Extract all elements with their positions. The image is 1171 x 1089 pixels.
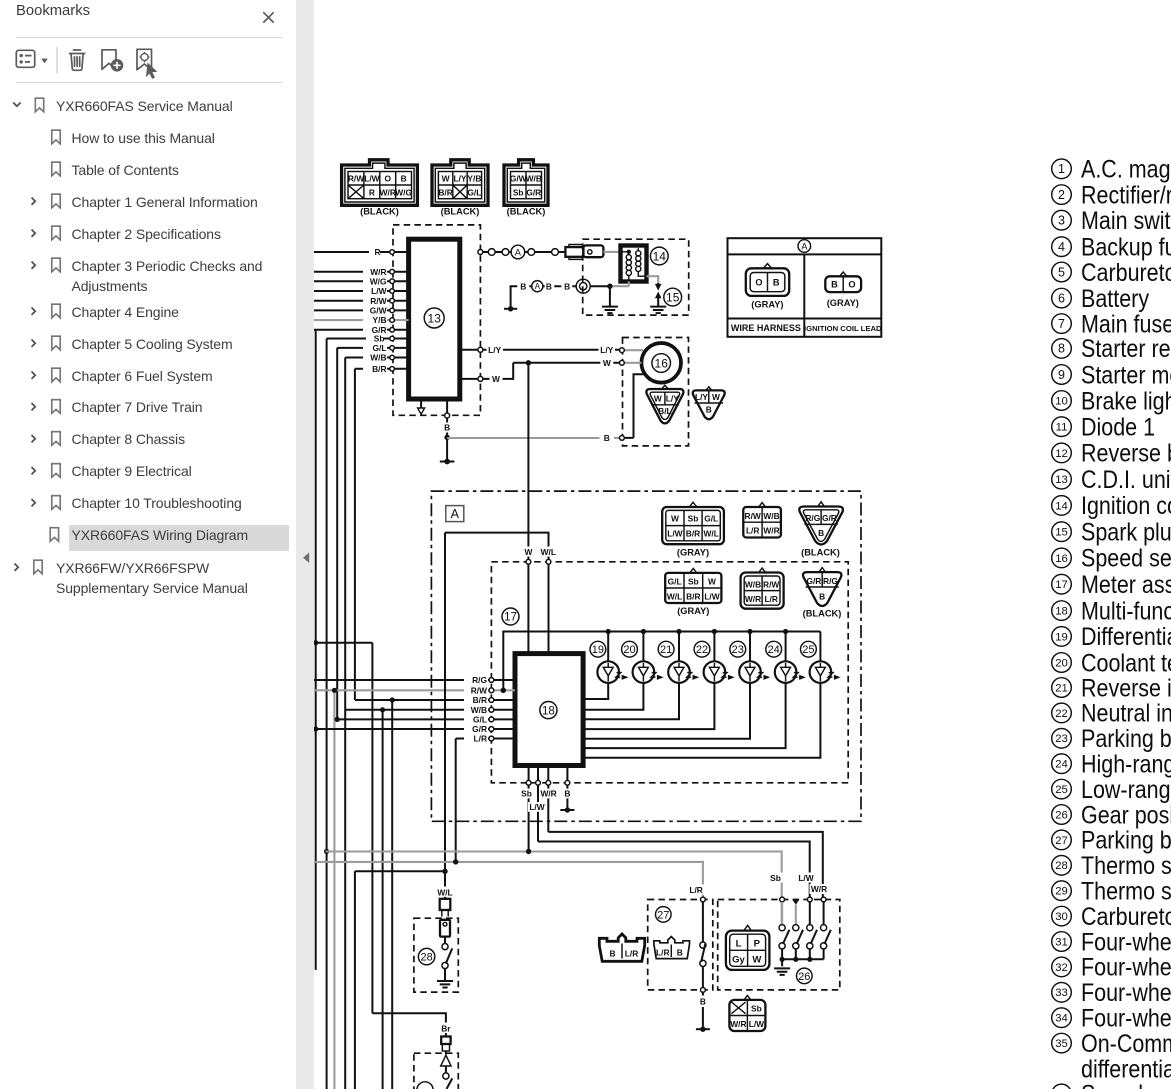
diode unit U29 — [417, 1051, 453, 1089]
svg-text:L/W: L/W — [667, 529, 682, 539]
connector 4-pin meter row — [741, 568, 784, 609]
svg-text:Sb: Sb — [751, 1004, 762, 1014]
svg-text:G/R: G/R — [472, 724, 487, 734]
svg-text:24: 24 — [1055, 759, 1068, 771]
svg-text:R/G: R/G — [823, 576, 838, 586]
svg-text:L/Y: L/Y — [666, 394, 679, 404]
svg-text:6: 6 — [1058, 291, 1065, 305]
svg-text:High-range indicator light: High-range indicator light — [1081, 750, 1171, 778]
connector X|Sb|W/R|L/W — [729, 995, 765, 1031]
svg-text:R/W: R/W — [370, 296, 386, 306]
svg-text:20: 20 — [1055, 657, 1068, 669]
svg-text:W/B: W/B — [763, 511, 779, 521]
svg-text:B: B — [818, 528, 824, 538]
svg-text:B: B — [819, 592, 825, 602]
svg-text:A: A — [535, 282, 541, 291]
svg-text:R/G: R/G — [805, 513, 820, 523]
svg-text:O: O — [848, 280, 855, 290]
svg-text:L: L — [736, 939, 742, 950]
svg-text:28: 28 — [1055, 860, 1068, 872]
svg-text:22: 22 — [696, 644, 708, 656]
svg-text:B: B — [609, 949, 615, 959]
svg-text:20: 20 — [623, 644, 635, 656]
svg-text:L/W: L/W — [749, 1019, 764, 1029]
svg-text:Four-wheel drive indicator lig: Four-wheel drive indicator light — [1081, 1004, 1171, 1032]
svg-text:W/R: W/R — [540, 789, 556, 799]
svg-text:27: 27 — [657, 909, 669, 921]
speed sensor U16 body — [641, 343, 681, 383]
ignition coil U14 dashed enclosure — [583, 239, 689, 315]
svg-text:Sb: Sb — [521, 789, 532, 799]
svg-text:18: 18 — [1055, 606, 1068, 618]
svg-text:R/G: R/G — [472, 675, 487, 685]
svg-text:Br: Br — [441, 1023, 451, 1033]
svg-text:25: 25 — [1055, 784, 1068, 796]
svg-text:W/B: W/B — [471, 705, 487, 715]
svg-text:17: 17 — [504, 612, 517, 624]
svg-text:W/G: W/G — [370, 276, 387, 286]
svg-text:R/W: R/W — [745, 511, 761, 521]
svg-text:Sb: Sb — [688, 577, 699, 587]
U18 left pins R/G R/W B/R W/B G/L G/R L/R — [464, 675, 515, 744]
svg-text:(GRAY): (GRAY) — [677, 548, 709, 558]
svg-text:G/L: G/L — [473, 715, 487, 725]
svg-text:W/L: W/L — [437, 887, 452, 897]
svg-text:26: 26 — [798, 971, 810, 983]
svg-text:B/R: B/R — [473, 695, 487, 705]
svg-text:differential gear lock switch: differential gear lock switch — [1081, 1055, 1171, 1083]
svg-text:28: 28 — [420, 952, 432, 964]
svg-text:Parking brake indicator light: Parking brake indicator light — [1081, 725, 1171, 753]
svg-text:G/L: G/L — [467, 187, 481, 197]
svg-text:(GRAY): (GRAY) — [827, 298, 859, 308]
svg-text:L/W: L/W — [364, 174, 379, 184]
svg-text:IGNITION COIL LEAD: IGNITION COIL LEAD — [804, 324, 882, 333]
svg-text:L/W: L/W — [529, 802, 544, 812]
svg-text:15: 15 — [666, 290, 680, 304]
svg-text:Thermo switch: Thermo switch — [1081, 852, 1171, 880]
svg-text:13: 13 — [428, 311, 442, 325]
svg-text:Starter relay: Starter relay — [1081, 335, 1171, 363]
svg-text:L/Y: L/Y — [600, 345, 613, 355]
gear switch connector L|P|Gy|W — [726, 925, 770, 969]
svg-text:Diode 1: Diode 1 — [1081, 413, 1155, 441]
svg-text:1: 1 — [1058, 162, 1065, 176]
svg-text:Gy: Gy — [732, 955, 745, 966]
svg-text:3: 3 — [1058, 214, 1065, 228]
wire L/R gray to parking brake switch — [314, 859, 703, 897]
svg-text:W: W — [492, 374, 500, 384]
connector L/R|B — [654, 937, 690, 959]
coil primary return wire to ground junction — [590, 282, 629, 307]
svg-text:A: A — [515, 247, 522, 257]
svg-text:Rectifier/regulator: Rectifier/regulator — [1081, 181, 1171, 209]
svg-text:B: B — [700, 997, 706, 1007]
speed sensor U16 dashed enclosure — [623, 338, 689, 446]
thermo switch U28 dashed enclosure — [414, 918, 458, 992]
svg-text:34: 34 — [1055, 1013, 1068, 1025]
wire Br to diode unit — [372, 1013, 451, 1051]
svg-text:19: 19 — [592, 644, 604, 656]
svg-text:P: P — [754, 939, 761, 950]
svg-text:W/B: W/B — [370, 353, 386, 363]
svg-text:Speed sensor lead: Speed sensor lead — [1081, 1080, 1171, 1089]
svg-text:25: 25 — [802, 644, 814, 656]
svg-text:W/L: W/L — [704, 529, 719, 539]
svg-text:35: 35 — [1055, 1038, 1068, 1050]
connector top-2 (BLACK) 6-pin — [432, 160, 488, 217]
svg-text:W: W — [654, 394, 662, 404]
svg-text:W/L: W/L — [541, 547, 556, 557]
connector triangle W|L/Y|B/L — [646, 385, 683, 423]
svg-text:Main switch: Main switch — [1081, 206, 1171, 234]
svg-text:21: 21 — [660, 644, 672, 656]
svg-text:(BLACK): (BLACK) — [360, 207, 399, 217]
svg-text:Reverse buzzer: Reverse buzzer — [1081, 439, 1171, 467]
svg-text:17: 17 — [1055, 579, 1068, 591]
svg-text:G/W: G/W — [370, 306, 387, 316]
svg-text:B: B — [564, 282, 570, 292]
svg-text:W/B: W/B — [526, 174, 542, 184]
svg-text:G/L: G/L — [373, 343, 387, 353]
svg-text:14: 14 — [653, 249, 667, 263]
svg-text:Spark plug: Spark plug — [1081, 518, 1171, 546]
svg-text:Sb: Sb — [513, 187, 524, 197]
connector 6-pin (GRAY) meter row — [665, 568, 721, 616]
svg-text:L/R: L/R — [474, 734, 488, 744]
node A label box — [446, 506, 464, 522]
LED indicator 21 — [583, 632, 699, 720]
connector top-3 (BLACK) 4-pin — [504, 160, 548, 217]
svg-text:B: B — [831, 280, 838, 290]
svg-text:B: B — [706, 405, 712, 415]
svg-text:R: R — [374, 247, 380, 257]
svg-text:B: B — [677, 948, 683, 958]
svg-text:26: 26 — [1055, 809, 1068, 821]
svg-text:33: 33 — [1055, 987, 1068, 999]
svg-text:L/R: L/R — [656, 948, 670, 958]
svg-text:L/R: L/R — [689, 885, 703, 895]
svg-text:Speed sensor: Speed sensor — [1081, 544, 1171, 572]
svg-text:W: W — [708, 577, 716, 587]
svg-text:Carburetor heater relay: Carburetor heater relay — [1081, 902, 1171, 930]
svg-text:C.D.I. unit: C.D.I. unit — [1081, 465, 1171, 493]
svg-text:21: 21 — [1055, 682, 1068, 694]
U13 bottom ground stub triangle — [418, 399, 425, 414]
svg-text:Sb: Sb — [688, 513, 699, 523]
svg-text:29: 29 — [1055, 886, 1068, 898]
svg-text:15: 15 — [1055, 527, 1068, 539]
svg-text:W/R: W/R — [745, 594, 761, 604]
svg-text:L/R: L/R — [746, 526, 760, 536]
svg-text:12: 12 — [1055, 448, 1068, 460]
svg-text:7: 7 — [1058, 317, 1065, 331]
svg-text:Backup fuse: Backup fuse — [1081, 233, 1171, 261]
svg-text:8: 8 — [1058, 342, 1065, 356]
U18 bottom pins Sb L/W W/R B — [520, 766, 575, 850]
svg-text:Sb: Sb — [770, 873, 781, 883]
LED indicator 20 — [583, 632, 664, 710]
svg-text:22: 22 — [1055, 708, 1068, 720]
svg-text:On-Command four-wheel: On-Command four-wheel — [1081, 1029, 1171, 1057]
svg-text:W: W — [712, 392, 720, 402]
svg-text:Thermo switch: Thermo switch — [1081, 877, 1171, 905]
svg-text:W: W — [603, 358, 611, 368]
svg-text:(GRAY): (GRAY) — [677, 606, 709, 616]
svg-text:23: 23 — [1055, 733, 1068, 745]
connector triangle L/Y|W|B — [693, 387, 725, 419]
connector top-1 (BLACK) 8-pin — [342, 160, 418, 217]
svg-text:18: 18 — [542, 705, 555, 717]
svg-text:(BLACK): (BLACK) — [803, 609, 842, 619]
svg-text:Battery: Battery — [1081, 284, 1149, 312]
LED bus wire and tap to R/W — [501, 629, 821, 693]
svg-text:W/R: W/R — [730, 1019, 746, 1029]
svg-text:Four-wheel drive motor: Four-wheel drive motor — [1081, 979, 1171, 1007]
C.D.I. unit U13 body — [409, 239, 460, 399]
LED indicator 25 — [583, 632, 841, 758]
svg-text:Starter motor: Starter motor — [1081, 361, 1171, 389]
svg-text:16: 16 — [1055, 553, 1068, 565]
ignition coil U14 — [621, 246, 669, 282]
svg-text:B: B — [546, 282, 552, 292]
svg-text:L/W: L/W — [704, 591, 719, 601]
svg-text:L/Y: L/Y — [453, 174, 466, 184]
svg-text:(BLACK): (BLACK) — [801, 548, 840, 558]
svg-text:Four-wheel drive switch: Four-wheel drive switch — [1081, 928, 1171, 956]
svg-text:30: 30 — [1055, 911, 1068, 923]
svg-text:B: B — [604, 433, 610, 443]
svg-text:B: B — [401, 174, 407, 184]
U13 bottom B pin and chassis ground — [440, 399, 455, 464]
parking brake switch U27 — [656, 885, 710, 1032]
svg-text:Gear position switch: Gear position switch — [1081, 801, 1171, 829]
svg-text:27: 27 — [1055, 835, 1068, 847]
svg-text:W/R: W/R — [811, 884, 827, 894]
svg-text:L/W: L/W — [798, 873, 813, 883]
svg-text:G/R: G/R — [822, 513, 837, 523]
svg-text:L/Y: L/Y — [695, 392, 708, 402]
svg-text:24: 24 — [768, 644, 780, 656]
connector B|L/R (thick) — [599, 934, 644, 961]
LED indicator 24 — [583, 632, 806, 749]
svg-text:G/L: G/L — [668, 577, 682, 587]
svg-text:Y/B: Y/B — [373, 315, 387, 325]
svg-text:10: 10 — [1055, 395, 1068, 407]
svg-text:W: W — [752, 955, 761, 966]
svg-text:Coolant temperature warning li: Coolant temperature warning light — [1081, 649, 1171, 677]
C.D.I. unit U13 dashed enclosure — [393, 225, 480, 415]
connector 6-pin (GRAY) harness row — [662, 502, 724, 557]
svg-text:G/L: G/L — [704, 513, 718, 523]
svg-text:W: W — [671, 513, 679, 523]
multi-function display U18 body — [515, 654, 583, 766]
wires into U13 left: R W/R W/G L/W R/W G/W Y/B G/R Sb G/L W/B B/R — [314, 247, 409, 374]
svg-text:B/R: B/R — [438, 187, 452, 197]
svg-text:9: 9 — [1058, 368, 1065, 382]
parking brake switch U27 dashed enclosure — [648, 900, 713, 990]
svg-text:16: 16 — [655, 356, 669, 370]
svg-text:B/L: B/L — [658, 406, 672, 416]
svg-text:Multi-function display: Multi-function display — [1081, 597, 1171, 625]
svg-text:B: B — [444, 423, 450, 433]
svg-text:A: A — [451, 507, 460, 521]
svg-text:W/G: W/G — [395, 187, 412, 197]
svg-text:B/R: B/R — [372, 364, 386, 374]
labels above gear switch — [768, 873, 829, 895]
svg-text:(BLACK): (BLACK) — [441, 207, 480, 217]
svg-text:A: A — [801, 242, 808, 252]
svg-text:Four-wheel drive relay: Four-wheel drive relay — [1081, 953, 1171, 981]
LED indicator 19 — [583, 632, 628, 700]
svg-text:O: O — [385, 174, 392, 184]
svg-text:R/W: R/W — [763, 580, 779, 590]
wire L/Y from U13 to speed sensor — [460, 345, 622, 355]
svg-text:L/W: L/W — [371, 286, 386, 296]
svg-text:23: 23 — [732, 644, 744, 656]
svg-text:14: 14 — [1055, 500, 1068, 512]
gear position switch U26 dashed enclosure — [718, 900, 840, 990]
svg-text:13: 13 — [1055, 474, 1068, 486]
svg-text:Neutral indicator light: Neutral indicator light — [1081, 699, 1171, 727]
connector triangle (BLACK) meter row — [803, 568, 842, 619]
svg-text:WIRE HARNESS: WIRE HARNESS — [731, 323, 801, 333]
wire R chain with inline joints to ignition coil — [478, 245, 565, 259]
ground under coil — [602, 307, 618, 314]
svg-text:R: R — [369, 187, 375, 197]
svg-text:(BLACK): (BLACK) — [507, 207, 546, 217]
svg-text:O: O — [755, 277, 762, 287]
svg-text:Ignition coil: Ignition coil — [1081, 492, 1171, 520]
svg-text:W: W — [442, 174, 450, 184]
svg-text:R/W: R/W — [471, 685, 487, 695]
svg-text:Brake light switch: Brake light switch — [1081, 387, 1171, 415]
section A dash-dot enclosure — [431, 491, 861, 821]
svg-text:4: 4 — [1058, 240, 1065, 254]
U16 pins L/Y W B — [620, 348, 645, 440]
svg-text:B/R: B/R — [686, 529, 700, 539]
wire W from U13 to speed sensor and meter — [460, 358, 622, 560]
svg-text:W/R: W/R — [380, 187, 396, 197]
svg-text:B: B — [520, 282, 526, 292]
LED indicator 23 — [583, 632, 770, 739]
left harness bundle wires — [313, 330, 489, 1089]
diode unit U29 dashed enclosure (partial) — [414, 1053, 458, 1089]
LED indicator 22 — [583, 632, 735, 730]
svg-text:B/R: B/R — [686, 591, 700, 601]
svg-text:W/B: W/B — [745, 580, 761, 590]
inline spade connector joint — [565, 245, 620, 260]
svg-text:G/R: G/R — [526, 187, 541, 197]
svg-text:(GRAY): (GRAY) — [751, 300, 783, 310]
svg-text:5: 5 — [1058, 265, 1065, 279]
svg-text:19: 19 — [1055, 631, 1068, 643]
legend list — [1052, 155, 1171, 1089]
svg-text:R/W: R/W — [348, 174, 364, 184]
gear switch contacts U26 — [774, 897, 831, 984]
svg-text:W/R: W/R — [370, 267, 386, 277]
svg-text:Carburetor heater: Carburetor heater — [1081, 258, 1171, 286]
spark plug lead B chain — [504, 279, 590, 311]
svg-text:B: B — [564, 789, 570, 799]
svg-text:Differential gear motor: Differential gear motor — [1081, 623, 1171, 651]
wire L/W to gear switch — [538, 842, 810, 898]
svg-text:L/R: L/R — [764, 594, 778, 604]
thermo switch U28 — [418, 869, 454, 988]
svg-text:31: 31 — [1055, 936, 1068, 948]
wire Sb gray to gear switch — [326, 849, 782, 925]
svg-text:W/L: W/L — [667, 591, 682, 601]
svg-text:2: 2 — [1058, 188, 1065, 202]
svg-text:L/R: L/R — [625, 949, 639, 959]
svg-text:32: 32 — [1055, 962, 1068, 974]
svg-text:L/Y: L/Y — [488, 345, 501, 355]
connector triangle (BLACK) harness row — [799, 502, 843, 558]
svg-text:Meter assembly: Meter assembly — [1081, 570, 1171, 598]
svg-text:Y/B: Y/B — [467, 174, 481, 184]
svg-text:W/R: W/R — [763, 526, 779, 536]
connector 4-pin harness row — [743, 503, 781, 538]
svg-text:B: B — [773, 277, 780, 287]
svg-text:11: 11 — [1056, 422, 1068, 434]
svg-text:Low-range indicator light: Low-range indicator light — [1081, 775, 1171, 803]
wire W/R to gear switch — [548, 832, 823, 897]
svg-text:Main fuse: Main fuse — [1081, 310, 1171, 338]
meter assembly U17 dashed enclosure — [491, 562, 848, 783]
W and W/L wires into meter box — [445, 533, 558, 870]
svg-text:G/W: G/W — [510, 174, 527, 184]
spark plug U15 gap and ground — [647, 276, 682, 313]
svg-text:A.C. magneto: A.C. magneto — [1081, 155, 1171, 183]
svg-text:Reverse indicator light: Reverse indicator light — [1081, 674, 1171, 702]
svg-text:Parking brake switch: Parking brake switch — [1081, 826, 1171, 854]
svg-text:G/R: G/R — [806, 576, 821, 586]
table (A) wire harness / ignition coil lead — [728, 238, 883, 337]
wire B from U13 to speed sensor — [447, 433, 622, 443]
svg-text:W: W — [524, 547, 532, 557]
